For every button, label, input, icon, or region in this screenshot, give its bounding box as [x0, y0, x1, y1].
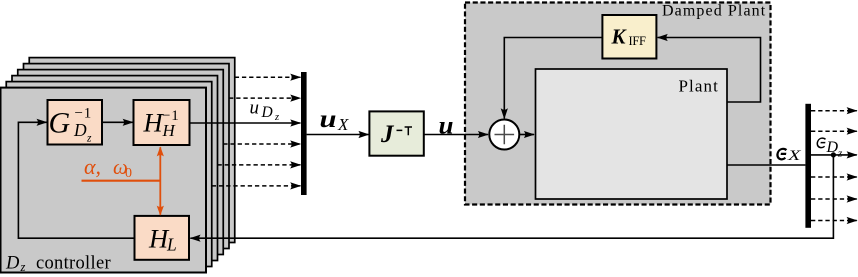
- controller stack panel 5: [24, 64, 230, 249]
- svg-text:L: L: [166, 235, 177, 255]
- svg-text:J: J: [380, 121, 395, 148]
- svg-text:X: X: [787, 148, 803, 164]
- controller stack panel 2: [6, 82, 212, 267]
- junction dot: [831, 152, 836, 157]
- wire dashed stack output 4: [223, 143, 300, 145]
- label Dz controller: [5, 253, 111, 274]
- wire dashed demux output 6: [811, 220, 857, 222]
- label alpha omega0: [84, 154, 132, 181]
- svg-text:z: z: [86, 133, 92, 145]
- label eps_Dz: [817, 138, 843, 159]
- svg-text:u: u: [439, 113, 454, 140]
- wire dashed stack output 1: [235, 76, 301, 78]
- label eps_X: [777, 148, 802, 164]
- damped plant dashed box: [465, 3, 771, 205]
- wire dashed stack output 6: [212, 185, 301, 187]
- label u_X: [320, 106, 350, 134]
- wire Plant output eps_X: [727, 164, 805, 166]
- svg-text:z: z: [274, 112, 279, 123]
- orange tuning line horizontal: [82, 180, 161, 182]
- controller stack panel 6 (backmost): [29, 58, 235, 243]
- wire u from J to sum: [424, 134, 488, 136]
- block G_Dz^-1: [48, 100, 103, 145]
- orange tuning arrow vertical (alpha omega to H_H and H_L): [159, 147, 161, 215]
- wire dashed demux output 4: [811, 176, 857, 178]
- svg-text:Damped Plant: Damped Plant: [662, 2, 766, 19]
- svg-text:G: G: [49, 107, 71, 140]
- controller stack panel 3: [12, 76, 218, 261]
- block H_L: [135, 216, 190, 260]
- wire dashed stack output 2: [229, 97, 300, 99]
- wire solid u_Dz from H_H: [190, 122, 301, 124]
- svg-text:H: H: [162, 121, 177, 140]
- label u_Dz: [250, 97, 280, 122]
- wire G to H_H: [102, 121, 133, 123]
- svg-text:IFF: IFF: [629, 34, 647, 48]
- svg-text:X: X: [337, 115, 349, 134]
- svg-text:controller: controller: [36, 253, 111, 273]
- svg-text:0: 0: [125, 166, 132, 181]
- block H_H^-1: [134, 100, 190, 145]
- wire Plant to K_IFF feedback: [658, 38, 761, 103]
- wire dashed stack output 5: [218, 164, 301, 166]
- svg-text:z: z: [837, 147, 843, 159]
- svg-text:z: z: [20, 260, 26, 274]
- svg-text:Plant: Plant: [679, 76, 719, 95]
- wire dashed demux output 5: [811, 198, 857, 200]
- svg-text:D: D: [5, 253, 20, 273]
- svg-text:K: K: [611, 24, 628, 48]
- mux bar right: [805, 104, 811, 228]
- wire solid eps_Dz output: [811, 154, 857, 156]
- wire sum to Plant: [519, 134, 534, 136]
- svg-text:u: u: [250, 97, 260, 118]
- block K_IFF: [602, 15, 656, 59]
- wire dashed demux output 2: [811, 130, 857, 132]
- controller stack panel 4: [18, 70, 224, 255]
- wire H_L output to G input (feedback loop left): [18, 122, 134, 238]
- wire dashed demux output 1: [811, 110, 857, 112]
- wire u_X from bar to J: [307, 134, 369, 136]
- sum junction: [489, 120, 519, 150]
- svg-text:α,: α,: [84, 154, 101, 179]
- mux bar left: [301, 72, 307, 195]
- svg-text:D: D: [73, 120, 87, 140]
- wire K_IFF to sum junction: [504, 38, 602, 119]
- svg-text:D: D: [261, 104, 273, 121]
- controller stack panel 1 (front, Dz controller): [1, 88, 207, 273]
- block Plant: [536, 69, 728, 199]
- block J^-T: [369, 111, 423, 155]
- wire feedback eps_Dz to H_L: [190, 155, 833, 238]
- svg-text:u: u: [320, 106, 337, 133]
